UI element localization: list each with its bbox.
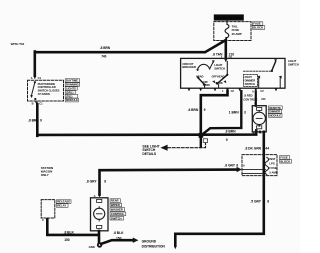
lamp module box [252,106,266,132]
svg-text:CON TRO C: CON TRO C [243,97,257,101]
svg-text:BLOCK: BLOCK [253,26,264,30]
DRL module label chips [65,79,79,103]
svg-text:MODULE: MODULE [66,98,78,102]
svg-text:A: A [243,164,245,168]
svg-text:GROUND: GROUND [142,239,157,243]
svg-text:.8 GRY: .8 GRY [86,179,97,183]
wire 1 BRN 3 from light switch down and left [202,91,242,135]
dimmer sub box [244,74,258,86]
svg-text:BLOCK: BLOCK [280,159,290,163]
svg-text:A: A [31,76,33,80]
fuse element INST LPS [265,157,269,174]
svg-text:SWITCH: SWITCH [245,82,255,86]
svg-text:3: 3 [244,110,246,114]
svg-text:DIMMER: DIMMER [245,79,256,83]
wiper switch lamp circle [94,208,105,219]
svg-text:PARK: PARK [216,81,223,85]
svg-text:740: 740 [101,55,106,59]
svg-text:B: B [254,102,256,106]
middle switch arm [226,74,228,76]
svg-text:MODULE: MODULE [269,114,281,118]
svg-text:CONTROLLED: CONTROLLED [38,85,56,89]
svg-text:8: 8 [104,179,106,183]
svg-text:SWITCH: SWITCH [214,66,225,70]
svg-text:.8 BLK: .8 BLK [64,230,75,234]
svg-text:LPS: LPS [269,162,274,166]
svg-text:B: B [253,130,255,134]
wire .8 BLK from relay [47,219,98,235]
release relay dashed box [41,200,55,218]
svg-text:C: C [42,218,44,222]
rear wiper washer switch box [91,198,109,231]
svg-text:.8 BLK: .8 BLK [113,231,124,235]
svg-text:150: 150 [116,236,122,240]
wire drop to photocell [33,52,36,76]
svg-text:CONTROL: CONTROL [111,212,125,216]
svg-text:WITH T61: WITH T61 [11,42,25,46]
svg-text:DISTRIBUTION: DISTRIBUTION [142,244,166,248]
ground splice dot [97,242,102,247]
svg-text:RELAY: RELAY [57,204,66,208]
svg-text:8: 8 [236,164,238,168]
wire wiper switch to ground [98,231,101,244]
svg-text:BREAKER: BREAKER [182,65,196,69]
svg-text:1 BRN: 1 BRN [229,110,239,114]
svg-text:REAR: REAR [111,199,119,203]
wire .8 GRY 8 inst lamps feed [100,170,237,195]
wiper switch label chips [110,199,126,221]
right switch arm [274,59,277,62]
photocell switch symbol [34,81,36,83]
svg-text:C: C [260,130,262,134]
light switch box [181,58,285,88]
contact marks [212,80,215,83]
svg-text:OFF: OFF [203,80,209,84]
svg-text:.8 BRN: .8 BRN [188,108,199,112]
svg-text:.8 DK GRN: .8 DK GRN [245,146,262,150]
tail fuse block dashed box [214,22,251,41]
svg-text:240: 240 [261,97,266,101]
wiper switch feed terminal [98,194,101,197]
svg-text:ONLY: ONLY [41,173,49,177]
wire .8 BRN 740 top horizontal run [35,40,226,52]
wire .8 RED to lamp module [255,91,257,105]
svg-text:WIPER: WIPER [111,203,120,207]
HOT AT ALL TIMES header [214,14,244,20]
junction connector C2 [199,133,204,138]
svg-text:FUSE: FUSE [269,166,276,170]
circuit breaker arc [198,64,210,69]
svg-text:SWITCH CLOSES: SWITCH CLOSES [38,89,60,93]
svg-text:.5 GRY: .5 GRY [250,200,261,204]
svg-text:SWITCH: SWITCH [288,62,299,66]
svg-text:5 AMP: 5 AMP [269,170,277,174]
svg-text:INST: INST [269,157,276,161]
svg-text:C1: C1 [38,76,42,80]
left switch arm [204,84,206,86]
svg-text:HEAD: HEAD [217,74,225,78]
wire .8 TAN 210 fuse to light switch [225,40,228,58]
svg-text:.8 BRN: .8 BRN [28,118,39,122]
mechanical linkage dashed [243,70,272,72]
svg-text:8: 8 [267,200,269,204]
lamp module label chips [268,106,282,118]
svg-text:WASHER: WASHER [111,208,123,212]
svg-text:PARK: PARK [203,83,210,87]
bottom terminals of light switch [188,88,278,91]
svg-text:C1: C1 [39,102,43,106]
terminal B C1 at photocell bottom [35,102,38,105]
inst lps fuse block dashed box [242,155,277,176]
wire A long horizontal to lamp module [37,130,256,135]
fuse block label [252,22,264,30]
svg-text:150: 150 [64,238,70,242]
svg-text:HOT AT ALL TIMES: HOT AT ALL TIMES [216,16,243,20]
svg-text:FOOT: FOOT [245,75,253,79]
svg-text:GND: GND [89,245,95,249]
svg-text:B: B [32,102,34,106]
terminal at bottom end [174,246,177,249]
terminals B C at lamp bottom [259,131,261,134]
photocell dashed box [28,80,64,101]
svg-text:PHOTODIODE: PHOTODIODE [38,82,56,86]
svg-text:AT DAWN: AT DAWN [38,92,50,96]
wire .8 BLK 150 to ground distribution [101,240,132,244]
svg-text:.8 GRY: .8 GRY [224,164,235,168]
wire .8 BRN 9 photocell output [36,104,39,136]
svg-text:.8 BRN: .8 BRN [100,46,111,50]
lamp circle [253,112,265,124]
fuse block label [280,156,292,164]
svg-text:44: 44 [265,146,269,150]
svg-text:DETAILS: DETAILS [142,152,157,156]
svg-text:9: 9 [40,118,42,122]
svg-text:9: 9 [226,138,228,142]
wire W1 light switch to junction [201,91,228,134]
svg-text:HEAD: HEAD [196,74,204,78]
svg-text:SWITCH: SWITCH [111,216,122,220]
svg-text:.8 BRN: .8 BRN [225,130,236,134]
svg-text:9: 9 [204,108,206,112]
svg-text:20 AMP: 20 AMP [232,32,242,36]
svg-text:.8 RED: .8 RED [244,93,253,97]
internal feed from fuse [224,59,227,62]
terminal A C1 at photocell top [33,76,36,79]
wire .8 DK GRN 44 down right side [175,132,263,246]
fuse element TAIL FUSE 20 AMP [226,20,228,24]
